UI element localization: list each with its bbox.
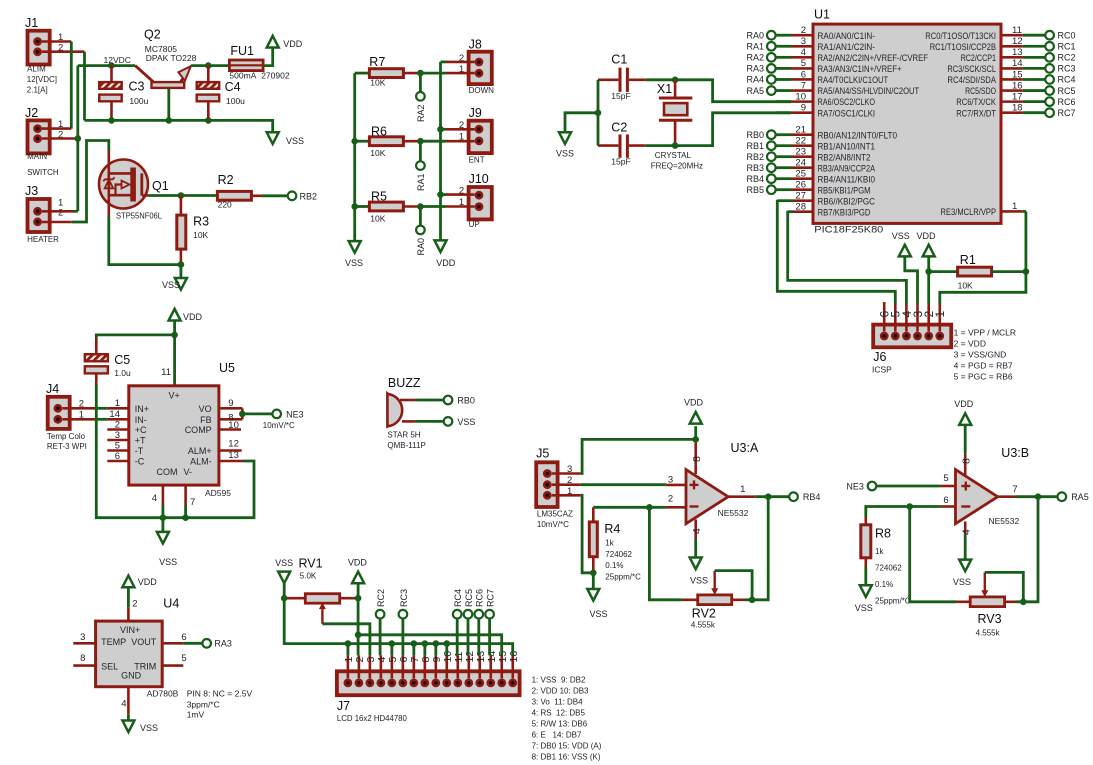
J7 pin 7 lead (409, 655, 421, 678)
svg-text:6: 6 (115, 451, 120, 462)
svg-text:NE3: NE3 (846, 482, 864, 492)
svg-text:NE3: NE3 (286, 409, 304, 419)
junction J7 pin 7 VSS (411, 640, 418, 655)
svg-text:3: Vo 11: DB4: 3: Vo 11: DB4 (532, 697, 584, 706)
U1 pin 11 (RC0) (925, 25, 1075, 42)
svg-text:VDD: VDD (183, 312, 203, 322)
wire U3B out to RA5 (1016, 495, 1057, 498)
node RB4 (789, 492, 820, 502)
svg-text:-T: -T (135, 446, 144, 456)
J9 pin 2 lead (441, 128, 475, 131)
svg-text:C5: C5 (114, 353, 130, 367)
node RC5 (464, 589, 474, 619)
regulator Q2 (135, 28, 196, 88)
svg-text:RA2/AN2/C2IN+/VREF-/CVREF: RA2/AN2/C2IN+/VREF-/CVREF (818, 53, 929, 64)
wire VDD bus (buttons) (439, 62, 442, 241)
junction C4 top (205, 62, 212, 69)
wire FU1 to VDD (263, 48, 273, 66)
svg-text:VSS: VSS (345, 258, 363, 268)
wire R5 to J10.1 (420, 205, 446, 208)
svg-text:8: 8 (691, 456, 703, 462)
svg-text:AD595: AD595 (205, 488, 231, 498)
svg-text:R5: R5 (371, 190, 387, 204)
U1 pin 5 (RA3) (746, 58, 901, 75)
junction RA1 tap (417, 138, 424, 145)
wire NE3 to U3B pin5 (877, 485, 941, 488)
svg-text:ICSP: ICSP (872, 365, 892, 375)
U5 pin 1 (IN+) (107, 398, 149, 414)
J8 pin 1 lead (446, 72, 475, 75)
J4 pin 2 lead (62, 407, 95, 410)
svg-text:RB3: RB3 (746, 163, 764, 173)
wire Q1 gate to R2 (149, 194, 217, 197)
node RA3 (202, 639, 232, 649)
svg-text:J4: J4 (46, 382, 59, 396)
svg-text:VDD: VDD (684, 397, 704, 407)
svg-text:R3: R3 (193, 215, 209, 229)
svg-text:5.0K: 5.0K (300, 572, 317, 581)
svg-text:10K: 10K (370, 213, 385, 223)
junction X1 top (672, 77, 679, 84)
IC U4 body (96, 596, 180, 698)
wire U3A out to RB4 (755, 495, 789, 498)
svg-text:7: 7 (190, 497, 195, 508)
svg-text:U5: U5 (219, 361, 235, 375)
wire R4 top to U3A pin2 (593, 506, 666, 509)
svg-text:Q1: Q1 (152, 179, 169, 193)
svg-text:VSS: VSS (162, 280, 180, 290)
node RC2 (376, 589, 386, 619)
junction RV1 right (355, 595, 362, 602)
svg-text:VDD: VDD (348, 558, 368, 568)
capacitor C4 (197, 66, 245, 121)
U5 pin 3 (+T) (107, 430, 146, 446)
J9 pin 1 number (459, 131, 464, 142)
resistor R4 (589, 507, 641, 581)
svg-text:TEMP: TEMP (101, 637, 126, 647)
power VDD (U3B) (954, 399, 974, 425)
svg-text:RB2/AN8/INT2: RB2/AN8/INT2 (818, 152, 871, 163)
svg-text:3: 3 (80, 632, 85, 643)
svg-text:VSS: VSS (140, 723, 158, 733)
op-amp U3:B (956, 446, 1030, 526)
svg-text:6: 6 (943, 495, 948, 506)
J6 pin 2 lead (922, 304, 936, 332)
svg-text:VSS: VSS (556, 149, 574, 159)
junction Q2 tab (166, 117, 173, 124)
junction R3 bottom (178, 261, 185, 268)
svg-text:1: 1 (740, 484, 745, 495)
svg-text:-C: -C (135, 457, 145, 467)
svg-text:RA2: RA2 (746, 53, 764, 63)
junction J7 pin 9 VSS (433, 640, 440, 655)
svg-text:ALM-: ALM- (190, 457, 212, 467)
J3 pin 1 number (58, 198, 63, 209)
U1 pin 6 (RA4) (746, 69, 888, 86)
node RB2 (288, 191, 317, 201)
svg-text:RB0: RB0 (746, 130, 764, 140)
U3A pin 8 lead (691, 443, 703, 474)
power VSS (R8) (855, 585, 873, 613)
J10 pin 1 lead (446, 205, 475, 208)
wire RC2 to J7.4 (379, 619, 382, 656)
transistor Q1 (99, 151, 169, 221)
svg-text:VSS: VSS (590, 609, 608, 619)
capacitor C2 (598, 120, 646, 166)
wire J4.1 to U5 IN- (95, 418, 107, 421)
svg-text:10mV/*C: 10mV/*C (537, 520, 569, 529)
wire out to RV2 right (745, 497, 768, 600)
svg-text:25ppm/*C: 25ppm/*C (875, 597, 911, 606)
J4 pin 1 number (79, 409, 84, 420)
svg-text:GND: GND (121, 671, 142, 681)
svg-text:RC7: RC7 (486, 589, 496, 607)
svg-text:1k: 1k (605, 538, 614, 547)
U4 note text (187, 688, 253, 719)
svg-text:5: R/W 13: DB6: 5: R/W 13: DB6 (532, 719, 588, 728)
svg-text:CRYSTAL: CRYSTAL (655, 151, 692, 160)
svg-text:2: 2 (668, 494, 673, 505)
connector J2 (25, 106, 50, 153)
wire RB6 to J6.5 (777, 200, 895, 304)
wire R6 to J9.1 (420, 140, 446, 143)
wire VDD to U5 V+ (173, 321, 176, 386)
resistor R3 (177, 196, 209, 265)
connector J6 (872, 325, 951, 375)
svg-text:VDD: VDD (138, 577, 158, 587)
svg-text:NE5532: NE5532 (989, 516, 1020, 526)
svg-text:RA4/T0CLKI/C1OUT: RA4/T0CLKI/C1OUT (818, 75, 889, 86)
svg-text:6: 6 (181, 632, 186, 643)
U4 pin 3 (TEMP) (73, 632, 95, 643)
junction C3 bottom (108, 117, 115, 124)
svg-text:3ppm/*C: 3ppm/*C (187, 700, 220, 710)
junction osc VSS tap (595, 110, 602, 117)
svg-text:RC4/SDI/SDA: RC4/SDI/SDA (947, 75, 996, 86)
svg-text:13: 13 (1012, 47, 1023, 58)
wire to osc VSS arrow (565, 113, 598, 133)
resistor R7 (355, 55, 421, 88)
junction U3A out (765, 493, 772, 500)
wire out to RV3 right (1016, 497, 1038, 602)
svg-text:RA1/AN1/C2IN-: RA1/AN1/C2IN- (818, 42, 876, 53)
node NE3 (U5 out) (263, 409, 304, 430)
wire VSS rail (85, 120, 273, 132)
U1 pin 3 (RA1) (746, 36, 875, 53)
node VSS (buzzer) (444, 417, 476, 427)
svg-text:RA3/AN3/C1IN+/VREF+: RA3/AN3/C1IN+/VREF+ (818, 64, 902, 75)
U4 pin 2 lead (128, 598, 137, 621)
svg-text:6: E 14: DB7: 6: E 14: DB7 (532, 730, 582, 739)
svg-text:8: 8 (961, 458, 973, 464)
wire R8 top to U3B pin6 (866, 507, 941, 518)
wire U3A pin2 to RV2 left (649, 507, 681, 600)
svg-text:VSS: VSS (457, 417, 475, 427)
crystal X1 (651, 80, 703, 171)
svg-text:17: 17 (1012, 91, 1023, 102)
connector J8 (469, 38, 495, 96)
node RC6 (475, 589, 485, 619)
svg-text:HEATER: HEATER (27, 235, 59, 244)
J3 pin 2 number (58, 208, 63, 219)
J7 pin 1 lead (343, 655, 355, 678)
wire RA1 stub (419, 141, 422, 161)
svg-text:13: 13 (228, 450, 239, 461)
wire RC7 to J7.14 (488, 619, 491, 656)
power VDD (regulator output) (267, 36, 303, 49)
svg-text:RB4/AN11/KBI0: RB4/AN11/KBI0 (818, 174, 876, 185)
J7 pin 2 lead (354, 655, 366, 678)
svg-text:8: DB1 16: VSS (K): 8: DB1 16: VSS (K) (532, 752, 601, 761)
wire R7 to J8.1 (420, 72, 446, 75)
U1 pin 25 (RB4) (746, 169, 875, 186)
BUZZ pin 2 lead (402, 420, 416, 423)
capacitor C5 (85, 339, 131, 384)
J4 pin 2 number (79, 398, 84, 409)
U1 pin 13 (RC2) (961, 47, 1076, 64)
resistor R2 (217, 173, 262, 210)
svg-text:100u: 100u (226, 96, 245, 106)
svg-text:J3: J3 (25, 184, 38, 198)
U5 pin 5 (-T) (107, 440, 143, 456)
svg-text:RB1: RB1 (746, 141, 764, 151)
svg-text:9: 9 (801, 102, 806, 113)
wire U4 out to RA3 (183, 642, 202, 645)
svg-text:22: 22 (795, 136, 806, 147)
J1 pin 2 number (58, 42, 63, 53)
U3B pin 8 lead (961, 453, 973, 476)
resistor R5 (355, 190, 421, 224)
svg-text:1: 1 (1012, 201, 1017, 212)
wire J5.3 to U3A pin8 (581, 439, 696, 473)
U3A pin 1 lead (728, 484, 755, 497)
power VSS (input section) (267, 132, 304, 146)
svg-text:RC0: RC0 (1058, 30, 1076, 40)
wire VSS arrow to RV1 left (283, 583, 286, 598)
U5 pin 11 (V+) (161, 367, 180, 401)
svg-text:RA1: RA1 (416, 173, 426, 191)
svg-text:15: 15 (1012, 69, 1023, 80)
power VSS (Q1 source) (162, 278, 187, 290)
svg-text:24: 24 (795, 158, 806, 169)
J7 pin 13 lead (475, 651, 487, 679)
svg-text:100u: 100u (129, 96, 148, 106)
svg-text:26: 26 (795, 180, 806, 191)
svg-text:R8: R8 (875, 527, 891, 541)
svg-text:Temp Colo: Temp Colo (47, 432, 86, 441)
svg-text:RB1/AN10/INT1: RB1/AN10/INT1 (818, 141, 876, 152)
connector J9 (469, 106, 492, 164)
J6 pin 4 lead (900, 304, 914, 332)
svg-text:10K: 10K (370, 78, 385, 88)
U1 pin 15 (RC4) (947, 69, 1075, 86)
svg-text:VSS: VSS (690, 575, 708, 585)
svg-text:270902: 270902 (261, 70, 290, 80)
J7 pin 9 lead (431, 655, 443, 678)
junction U3B pin6 node (906, 503, 913, 510)
J5 pin 3 number (567, 464, 572, 475)
svg-text:FB: FB (200, 415, 212, 425)
power VSS (button pullups) (345, 241, 363, 268)
U1 pin 10 (RA6) (776, 91, 875, 108)
svg-text:RC2: RC2 (1058, 53, 1076, 63)
U1 pin 22 (RB1) (746, 136, 875, 153)
svg-text:5: 5 (181, 653, 186, 664)
svg-text:7: 7 (1012, 484, 1017, 495)
connector J7 (337, 671, 520, 723)
svg-text:SEL: SEL (101, 662, 118, 672)
svg-text:DOWN: DOWN (469, 86, 495, 95)
svg-text:1: 1 (115, 398, 120, 409)
svg-text:10K: 10K (958, 281, 973, 291)
J7 pin 10 lead (442, 651, 454, 679)
resistor R8 (861, 517, 911, 606)
svg-text:RA0/AN0/C1IN-: RA0/AN0/C1IN- (818, 31, 876, 42)
svg-text:4: 4 (152, 493, 157, 504)
svg-text:RET-3 WPI: RET-3 WPI (47, 442, 87, 451)
svg-text:2: 2 (132, 598, 137, 609)
svg-text:724062: 724062 (875, 564, 902, 573)
svg-text:11: 11 (161, 367, 171, 378)
wire VSS arrow to J6.3 (905, 256, 918, 303)
svg-text:12[VDC]: 12[VDC] (27, 75, 57, 84)
svg-text:RA1: RA1 (746, 41, 764, 51)
U4 inner labels (101, 625, 157, 681)
svg-text:RA4: RA4 (746, 75, 764, 85)
svg-text:C2: C2 (611, 120, 627, 134)
J10 pin 2 number (459, 185, 464, 196)
svg-text:4: RS 12: DB5: 4: RS 12: DB5 (532, 708, 586, 717)
power VDD (U5) (169, 309, 203, 322)
J2 pin 2 number (58, 129, 63, 140)
svg-text:2 = VDD: 2 = VDD (954, 339, 986, 349)
potentiometer RV1 (284, 557, 358, 624)
node RB0 (444, 395, 475, 405)
svg-text:RC4: RC4 (453, 589, 463, 607)
wire R4 to VSS arrow (592, 573, 595, 589)
svg-text:2: 2 (58, 208, 63, 219)
svg-text:RC5/SDO: RC5/SDO (965, 86, 996, 97)
U5 pin 2 (+C) (107, 419, 147, 435)
U3A pin 2 lead (666, 494, 686, 508)
junction J7 pin 10 VSS (444, 640, 451, 655)
wire R8 to VSS arrow (864, 567, 867, 585)
power VDD (ICSP) (916, 231, 936, 256)
J7 pin 5 lead (387, 655, 399, 678)
node RA5 (1058, 492, 1089, 502)
svg-text:X1: X1 (657, 82, 672, 96)
svg-text:V-: V- (184, 467, 193, 477)
svg-text:J1: J1 (25, 16, 38, 30)
U1 pin 21 (RB0) (746, 125, 897, 142)
junction RA0 tap (417, 203, 424, 210)
junction RV3 right (1020, 599, 1027, 606)
svg-text:RA3: RA3 (746, 64, 764, 74)
svg-text:RA5: RA5 (746, 86, 764, 96)
svg-text:1mV: 1mV (187, 710, 205, 720)
wire to VSS arrow (179, 265, 182, 278)
junction J7 pin 5 VSS (389, 640, 396, 655)
svg-text:SWITCH: SWITCH (27, 168, 59, 177)
U5 pin 4 (COM) (152, 467, 178, 505)
svg-text:RV3: RV3 (978, 612, 1002, 626)
svg-text:11: 11 (1012, 25, 1022, 36)
svg-text:J7: J7 (337, 699, 350, 713)
J6 pinout text (954, 328, 1016, 382)
U3A pin 4 lead (691, 520, 703, 540)
svg-text:AD780B: AD780B (147, 688, 179, 698)
svg-text:J2: J2 (25, 106, 38, 120)
net label 12VDC (104, 55, 131, 65)
connector J1 (25, 16, 50, 65)
svg-text:2.1[A]: 2.1[A] (27, 86, 48, 95)
svg-text:J5: J5 (536, 446, 549, 460)
U1 pin 4 (RA2) (746, 47, 928, 64)
wire C1 to X1 top (646, 78, 675, 81)
svg-text:RC3: RC3 (1058, 64, 1076, 74)
J2 pin 1 lead (42, 127, 71, 130)
svg-text:16: 16 (1012, 80, 1023, 91)
wire RC4 to J7.11 (456, 619, 459, 656)
svg-text:C1: C1 (611, 53, 627, 67)
wire VDD to U4 pin2 (127, 587, 130, 608)
svg-text:BUZZ: BUZZ (388, 376, 421, 390)
svg-text:C4: C4 (225, 80, 241, 94)
svg-text:RB0/AN12/INT0/FLT0: RB0/AN12/INT0/FLT0 (818, 130, 898, 141)
wire C2 to X1 bottom (646, 144, 675, 147)
svg-text:RA6/OSC2/CLKO: RA6/OSC2/CLKO (818, 97, 876, 108)
junction U5 V+ / C5 (171, 332, 178, 339)
svg-text:18: 18 (1012, 102, 1023, 113)
U1 pin 7 (RA5) (746, 80, 919, 97)
U5 pin 13 (ALM-) (190, 450, 243, 467)
svg-text:12: 12 (1012, 36, 1023, 47)
J6 pin 1 lead (933, 304, 947, 332)
svg-text:RC7: RC7 (1058, 108, 1076, 118)
svg-text:5 = PGC = RB6: 5 = PGC = RB6 (954, 372, 1013, 382)
wire C5 bottom to VSS rail (96, 384, 185, 518)
svg-text:VSS: VSS (892, 231, 910, 241)
potentiometer RV3 (956, 572, 1023, 637)
U5 pin 9 (VO) (199, 398, 243, 414)
svg-text:RC5: RC5 (464, 589, 474, 607)
svg-text:5: 5 (801, 58, 806, 69)
U5 pin 8 (FB) (200, 408, 242, 425)
svg-text:IN-: IN- (135, 415, 147, 425)
J8 pin 1 number (459, 64, 464, 75)
power VSS (ICSP) (892, 231, 911, 256)
svg-text:15pF: 15pF (611, 157, 630, 167)
U1 pin 1 (RE3/MCLR/VPP) (941, 201, 1026, 218)
wire J3.2 to Q1 drain (72, 141, 109, 223)
J5 pin 3 lead (552, 472, 581, 475)
svg-text:RB0: RB0 (457, 395, 475, 405)
svg-text:+T: +T (135, 436, 146, 446)
power VSS (R4) (587, 589, 607, 619)
U1 pin 28 (RB7) (788, 202, 871, 219)
U4 pin 4 lead (121, 687, 128, 715)
U4 pin 6 (VOUT) (162, 632, 186, 643)
svg-text:RB2: RB2 (300, 191, 318, 201)
wire J5.1 to R4 bottom (581, 495, 594, 573)
svg-text:7: 7 (801, 80, 806, 91)
potentiometer RV2 (682, 571, 753, 630)
svg-text:5: 5 (115, 440, 120, 451)
power VSS (oscillator) (556, 132, 574, 158)
svg-text:U1: U1 (814, 8, 830, 22)
J10 pin 2 lead (441, 193, 475, 196)
svg-text:LCD 16x2 HD44780: LCD 16x2 HD44780 (337, 713, 407, 723)
